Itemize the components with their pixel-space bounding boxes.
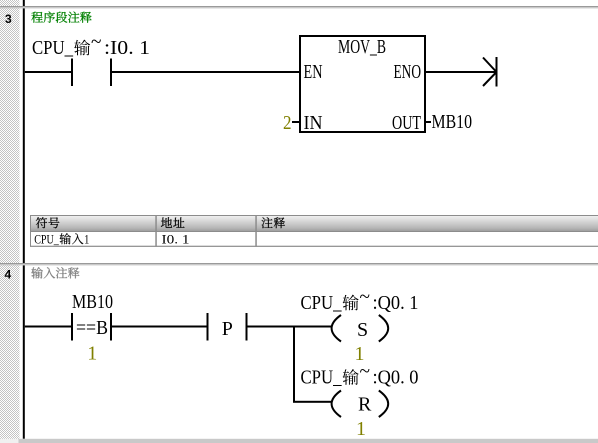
wire compare to P contact (112, 326, 207, 328)
coil label CPU_输~:Q0.1 (301, 286, 419, 314)
svg-text:EN: EN (304, 61, 323, 83)
svg-text:P: P (222, 318, 233, 340)
positive transition contact left bar (207, 313, 209, 341)
table header 地址 (161, 217, 185, 228)
svg-text::Q0. 0: :Q0. 0 (373, 367, 419, 389)
compare contact left bar (71, 313, 73, 341)
bottom scrollbar track (19, 439, 598, 443)
contact I0.1 right bar (110, 59, 112, 87)
IN pin stub (292, 121, 300, 123)
svg-text:~: ~ (360, 286, 371, 308)
left margin dither strip (0, 0, 20, 439)
svg-text:CPU_: CPU_ (32, 37, 74, 59)
svg-text:==B: ==B (76, 317, 108, 339)
reset coil R parentheses (332, 391, 389, 418)
wire ENO to arrow (425, 71, 496, 73)
svg-text:OUT: OUT (392, 112, 421, 134)
svg-text:~: ~ (360, 361, 371, 383)
set coil S parentheses (332, 315, 389, 342)
svg-text:1: 1 (84, 232, 89, 246)
bottom scrollbar corner (0, 439, 19, 443)
svg-text:I0. 1: I0. 1 (162, 232, 190, 246)
function block MOV_B box (300, 36, 425, 132)
coil label CPU_输~:Q0.0 (301, 361, 419, 389)
svg-text:S: S (357, 319, 368, 341)
wire contact to MOV_B EN (112, 71, 300, 73)
network 3 title 程序段注释 (31, 12, 91, 23)
previous network rail stub (23, 0, 25, 6)
svg-text::Q0. 1: :Q0. 1 (373, 292, 419, 314)
svg-text:CPU_: CPU_ (301, 367, 343, 389)
contact label CPU_输~:I0.1 (32, 31, 150, 59)
branch wire to R coil (295, 401, 331, 403)
branch junction vertical wire (293, 326, 295, 403)
svg-text::I0. 1: :I0. 1 (104, 37, 150, 59)
svg-text:R: R (358, 394, 372, 416)
OUT pin stub (425, 121, 431, 123)
wire P contact to S coil (248, 326, 332, 328)
svg-text:3: 3 (5, 12, 12, 26)
svg-text:1: 1 (356, 418, 366, 440)
table header 注释 (261, 217, 284, 228)
table header 符号 (36, 217, 60, 228)
contact I0.1 left bar (71, 59, 73, 87)
positive transition contact right bar (246, 313, 248, 341)
svg-text:4: 4 (5, 268, 12, 282)
svg-text:2: 2 (283, 112, 292, 134)
svg-text:CPU_: CPU_ (34, 232, 59, 246)
left power rail network 4 (23, 265, 25, 438)
svg-text:~: ~ (91, 31, 102, 53)
compare contact right bar (110, 313, 112, 341)
output arrow (483, 57, 498, 87)
network 3 separator line (0, 6, 598, 8)
svg-text:MB10: MB10 (72, 291, 113, 313)
svg-text:CPU_: CPU_ (301, 292, 343, 314)
svg-text:1: 1 (87, 343, 97, 365)
svg-text:ENO: ENO (394, 61, 422, 83)
wire rail to compare contact (25, 326, 71, 328)
symbol table frame (30, 215, 598, 247)
network 4 separator line (0, 263, 598, 265)
svg-text:IN: IN (304, 112, 323, 134)
wire rail to contact (25, 71, 71, 73)
svg-text:MB10: MB10 (432, 111, 473, 133)
svg-text:MOV_B: MOV_B (338, 36, 386, 58)
network 4 title 输入注释 (31, 267, 79, 278)
left power rail network 3 (23, 8, 25, 263)
table row symbol CPU_输入1 (34, 232, 89, 246)
